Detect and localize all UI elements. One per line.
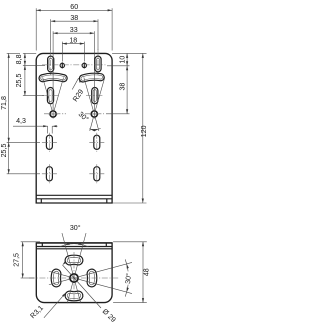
arc slot right outer [79,73,104,82]
mid slot left outer [47,88,53,104]
dimension 48 bottom view [142,242,144,303]
top slot right outer [95,56,101,72]
rays west [49,271,69,284]
svg-text:38: 38 [70,14,78,22]
swing rays right pivot up [84,77,105,110]
lower slot lower left centerlines [42,164,57,183]
svg-text:8,8: 8,8 [15,54,23,64]
dimension 71,8 left [8,53,10,142]
leader R29 arrow [79,78,82,82]
dim 120 bottom extension [112,202,146,204]
radial slot west inner [53,271,58,285]
arc slot left outer [39,73,67,82]
angle arc 30 right [125,259,128,296]
rays east [79,262,132,293]
leader diameter 29 [63,265,102,308]
svg-text:71,8: 71,8 [0,96,8,110]
centerline pivot row [44,113,104,115]
top slot left outer [48,56,54,72]
svg-text:30°: 30° [124,273,133,285]
top slot right inner [96,58,99,69]
flange tab tick left [40,199,42,203]
top slot right vertical centerline [97,50,99,76]
dim 60 extension lines [36,8,112,50]
svg-text:60: 60 [70,3,78,11]
dim 4,3 arrows [43,125,57,127]
radial slot east outer [87,269,97,287]
bend line lower [36,198,112,200]
bracket front view outline [36,53,112,203]
centerline top hole row [42,64,106,66]
angle arrow top-right [78,243,83,245]
small hole right [82,62,86,68]
leader diameter 29 arrow [63,261,67,265]
pivot hole right [91,111,97,117]
lower slot upper right [94,135,100,149]
angle arrow right-down [127,287,129,292]
flange tick right [105,243,107,247]
svg-text:4,3: 4,3 [16,117,26,125]
dimension 38 top [51,20,98,22]
mid slot left inner [49,90,52,102]
dimension 33 top [53,32,94,34]
top slot left vertical centerline [50,50,52,76]
dimension 38 right [126,66,128,114]
flange tab tick right [106,199,108,203]
flange inner edge [36,246,112,248]
dimension 10 right [126,53,128,65]
lower slot lower right [94,167,100,181]
bend line upper [36,194,112,196]
pivot hole left [50,111,56,117]
svg-text:33: 33 [70,26,78,34]
arc slot right inner [81,75,103,80]
lower slot upper left centerlines [42,133,57,152]
arc slot left inner [41,75,66,80]
swing rays left pivot [43,77,64,110]
mid slot right outer [92,88,98,104]
radial slot south outer [65,291,83,301]
dimension 60 top [36,9,112,11]
leader R3,1 arrow [62,293,66,297]
angle arrow right-up [127,264,129,269]
rays north [62,233,86,273]
svg-text:120: 120 [140,125,148,137]
svg-text:27,5: 27,5 [13,253,21,267]
left extension lines top [23,53,45,95]
hub crosshair [71,275,77,281]
dimension 18 top [62,43,84,45]
radial slot north outer [65,255,83,265]
leader R29 [72,78,78,89]
hub circle [70,274,78,282]
dim 18 extension lines [62,42,84,62]
angle arc 30 top [60,244,89,247]
dim 4,3 lines [13,126,58,133]
svg-text:25,5: 25,5 [0,144,8,158]
flange top edge [36,242,112,244]
dimension 25,5 lower left [8,142,10,174]
dimension 8,8 left [24,53,26,65]
radial slot south inner [67,293,81,298]
bottom view plate outline [36,243,112,303]
svg-text:18: 18 [69,36,77,44]
angle arc 30 front [89,128,101,129]
angle arrow top-left [65,243,70,245]
radial slot east inner [89,271,94,285]
centerline bottom view vertical [73,252,75,301]
small hole left [60,62,64,68]
lower slot lower left [46,167,52,181]
flange bend line [36,248,112,250]
svg-text:25,5: 25,5 [15,74,23,88]
dimension 25,5 left [24,65,26,95]
centerline bottom view horizontal [29,277,119,279]
dim 48 extensions [113,242,147,303]
centerline mid slot row [42,95,104,97]
pivot hole left crosshair [49,109,58,118]
lower left extension lines [7,142,40,174]
lower slot lower right centerlines [89,164,104,183]
mid slot right inner [93,90,96,102]
svg-text:30°: 30° [70,224,81,232]
right extension lines [106,53,147,113]
rays south [67,283,80,303]
pivot hole right crosshair [90,109,99,118]
svg-text:48: 48 [143,268,151,276]
svg-text:10: 10 [118,56,126,64]
angle arrow left [94,129,99,131]
angle arrow right [90,129,95,131]
swing rays right pivot down [90,118,99,131]
dimension 120 right [142,53,144,203]
svg-text:38: 38 [118,83,126,91]
lower slot upper left [46,135,52,149]
top slot left inner [49,58,52,69]
dim 27,5 extensions [21,242,40,278]
flange tick left [41,243,43,247]
dim 71,8 extension [7,52,20,54]
lower slot upper right centerlines [89,133,104,152]
dim 38 extension lines [51,19,98,50]
radial slot north inner [67,257,81,262]
leader R3,1 [44,293,66,318]
dim 33 extension lines [53,31,94,110]
radial slot west outer [51,269,61,287]
dimension 27,5 bottom view [22,242,24,278]
